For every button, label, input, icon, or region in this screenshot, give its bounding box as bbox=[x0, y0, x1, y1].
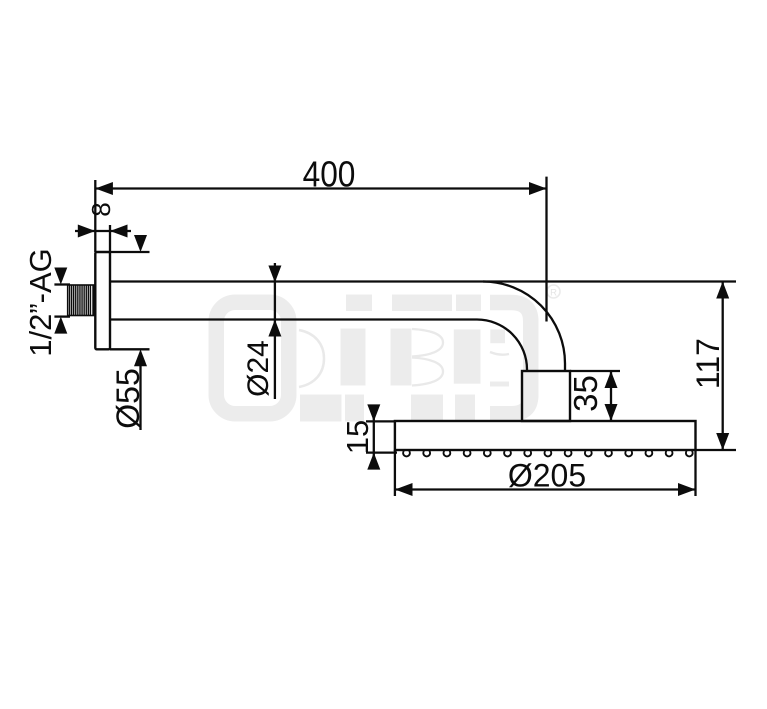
arrow nipple bottom bbox=[54, 317, 67, 334]
watermark I top segment bbox=[346, 295, 372, 312]
35 top extension line bbox=[570, 370, 620, 372]
flange right extension line bbox=[109, 225, 111, 252]
watermark L curl bbox=[490, 352, 509, 355]
extension line 400 right bbox=[545, 177, 547, 322]
black line work bbox=[54, 177, 736, 496]
watermark registered mark bbox=[547, 285, 560, 298]
svg-text:R: R bbox=[550, 288, 557, 299]
tube top line and 117 top extension bbox=[110, 280, 736, 282]
watermark B top segment bbox=[392, 295, 452, 312]
nozzles row bbox=[403, 451, 693, 457]
flange escutcheon outline bbox=[95, 252, 110, 349]
nipple dim tick bottom bbox=[54, 315, 70, 317]
svg-text:Ø205: Ø205 bbox=[508, 458, 586, 494]
watermark B bottom segment bbox=[411, 395, 443, 422]
svg-text:8: 8 bbox=[86, 202, 116, 216]
D205 right extension bbox=[694, 450, 696, 496]
svg-text:35: 35 bbox=[567, 375, 604, 412]
head body white bbox=[395, 421, 696, 450]
arrow 15 bottom bbox=[367, 453, 380, 470]
arrow D24 top bbox=[268, 266, 281, 283]
threaded nipple outline bbox=[68, 285, 95, 316]
arrow D205 right bbox=[678, 483, 696, 496]
nipple hatch bbox=[70, 285, 91, 315]
watermark L core bar bbox=[454, 329, 481, 383]
arrow nipple top bbox=[54, 268, 67, 285]
nipple threaded bbox=[68, 285, 96, 316]
D24 leader line bbox=[274, 263, 276, 399]
dimension arrows bbox=[54, 182, 729, 496]
shower head plate outline bbox=[395, 421, 696, 450]
watermark logo DIBL bbox=[216, 285, 560, 422]
arrow 8 left bbox=[78, 225, 96, 238]
117 bottom extension bbox=[696, 449, 737, 451]
wall extension line bbox=[94, 180, 96, 252]
arrow D55 bottom bbox=[134, 349, 147, 366]
arrow 117 top bbox=[716, 282, 729, 299]
svg-text:400: 400 bbox=[303, 155, 356, 195]
D205 left extension bbox=[394, 450, 396, 496]
arrow 35 bottom bbox=[605, 404, 618, 421]
watermark D bowl arc bbox=[299, 330, 324, 387]
D205 dim line bbox=[395, 488, 696, 490]
arrow 35 top bbox=[605, 371, 618, 388]
watermark D ring bbox=[216, 302, 289, 414]
outer bend arc bbox=[483, 282, 565, 372]
arrow D55 top bbox=[134, 235, 147, 252]
svg-text:1/2”-AG: 1/2”-AG bbox=[23, 248, 58, 357]
35 dim line bbox=[610, 371, 612, 421]
15 top extension line bbox=[366, 420, 395, 422]
dimension texts bbox=[23, 155, 726, 494]
dim line 400 bbox=[95, 187, 546, 189]
arrow 400 left bbox=[95, 182, 113, 195]
nipple dim tick top bbox=[54, 283, 70, 285]
arrow 15 top bbox=[367, 404, 380, 421]
watermark right bracket bbox=[490, 303, 531, 414]
117 dim line bbox=[722, 282, 724, 451]
svg-text:15: 15 bbox=[340, 420, 375, 454]
arrow D24 bottom bbox=[268, 320, 281, 337]
arrow 8 right bbox=[110, 225, 128, 238]
watermark L foot bbox=[490, 382, 509, 387]
arrow D205 left bbox=[395, 483, 413, 496]
svg-text:Ø24: Ø24 bbox=[242, 340, 275, 397]
watermark L top segment bbox=[456, 295, 481, 312]
arrow 400 right bbox=[529, 182, 547, 195]
watermark bottom segment a bbox=[300, 395, 342, 422]
watermark L square detail bbox=[490, 329, 505, 343]
flange top extension for D55 bbox=[110, 251, 150, 253]
watermark bottom segment b bbox=[345, 395, 364, 422]
connector body white bbox=[522, 371, 570, 421]
watermark B bowls bbox=[412, 329, 443, 386]
shower arm tube white body bbox=[110, 282, 565, 372]
watermark B core bar bbox=[391, 329, 412, 386]
15 bottom extension line bbox=[366, 451, 397, 453]
dim line 8 bbox=[75, 230, 131, 232]
connector block outline bbox=[522, 371, 570, 421]
watermark I core bar bbox=[341, 329, 366, 386]
15 dim leader bbox=[373, 405, 375, 469]
nipple solid collar bbox=[92, 285, 95, 316]
watermark L bottom segment bbox=[455, 395, 475, 422]
flange bottom extension for D55 bbox=[110, 348, 150, 350]
arrow 117 bottom bbox=[716, 433, 729, 450]
white fills layer bbox=[95, 252, 695, 450]
tube bottom line with inner arc bbox=[110, 320, 527, 372]
svg-text:Ø55: Ø55 bbox=[110, 368, 146, 428]
D55 leader line bbox=[139, 365, 141, 430]
svg-text:117: 117 bbox=[690, 338, 726, 389]
flange body white bbox=[95, 252, 110, 349]
